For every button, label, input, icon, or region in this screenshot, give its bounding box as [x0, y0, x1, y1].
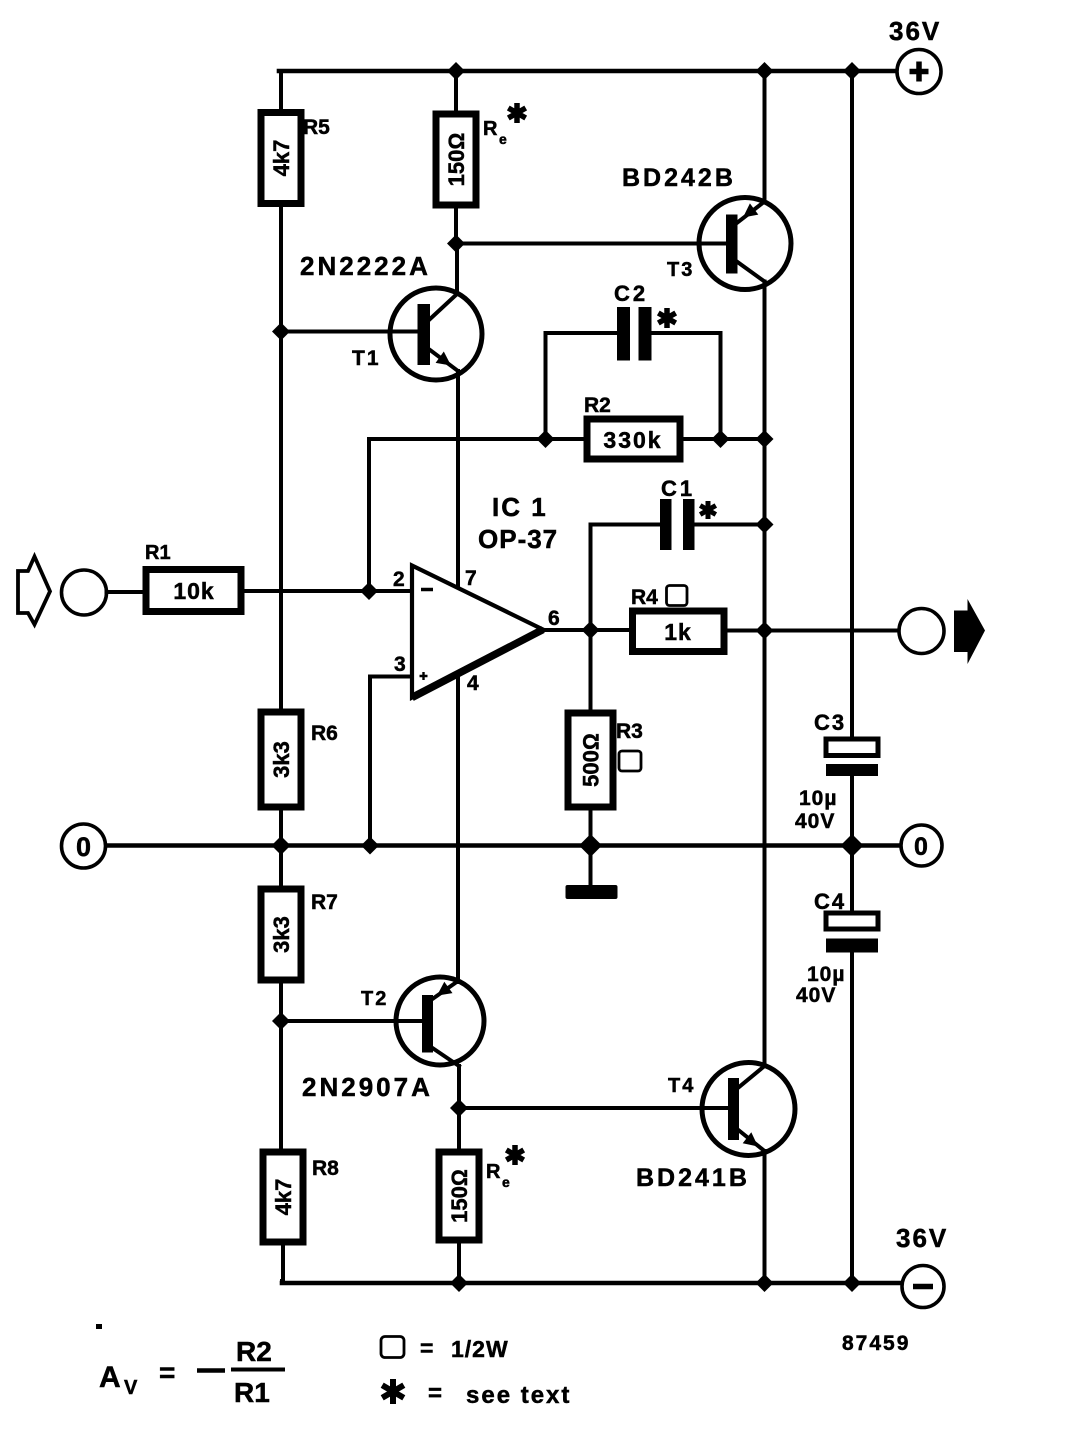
- pin 4 label: [467, 672, 479, 695]
- junction pin6 node: [582, 621, 600, 639]
- transistor T3 BD242B: [622, 164, 791, 290]
- svg-text:BD242B: BD242B: [622, 164, 736, 192]
- wire T1 emitter to pin7: [456, 371, 460, 588]
- resistor R4: [631, 586, 724, 652]
- asterisk C2: [658, 308, 675, 328]
- capacitor C4: [796, 889, 878, 1007]
- wire C2 left leg: [546, 333, 618, 439]
- svg-text:87459: 87459: [842, 1332, 910, 1355]
- junction pin3 ground: [361, 837, 379, 855]
- output arrow: [954, 599, 985, 664]
- terminal -36V: [902, 1266, 944, 1308]
- wire R8 to -36V rail: [282, 1242, 283, 1283]
- svg-text:1k: 1k: [664, 619, 692, 645]
- wire R3 to 0 rail: [589, 807, 593, 846]
- svg-text:10k: 10k: [173, 578, 214, 604]
- svg-text:10µ: 10µ: [807, 963, 845, 986]
- svg-text:C1: C1: [661, 476, 695, 501]
- junction pin2 node: [360, 582, 378, 600]
- wire feedback vertical: [367, 439, 371, 591]
- svg-text:R6: R6: [311, 722, 338, 745]
- svg-text:3: 3: [394, 653, 406, 676]
- wire R4 to output terminal: [724, 629, 899, 633]
- resistor R3 500ohm: [568, 713, 643, 807]
- wire pin6 to R4: [543, 628, 633, 632]
- svg-text:150Ω: 150Ω: [444, 133, 469, 187]
- svg-text:6: 6: [548, 607, 560, 630]
- asterisk RB bottom: [506, 1145, 523, 1165]
- svg-text:R1: R1: [145, 542, 171, 564]
- svg-text:4k7: 4k7: [271, 1179, 296, 1216]
- junction R4 output node: [756, 622, 774, 640]
- svg-text:4: 4: [467, 672, 479, 695]
- transistor T1 2N2222A: [300, 251, 482, 380]
- input arrow: [18, 557, 50, 625]
- wire 150ohm to T1 collector node: [454, 205, 458, 244]
- wire C2 right leg: [652, 333, 721, 439]
- svg-text:3k3: 3k3: [269, 916, 294, 953]
- legend asterisk: [382, 1379, 571, 1409]
- svg-text:1/2W: 1/2W: [451, 1336, 509, 1362]
- wire T1 collector: [430, 244, 457, 320]
- svg-text:40V: 40V: [796, 984, 836, 1007]
- wire ground stub: [589, 846, 593, 886]
- wire R1 to op-amp pin2: [241, 589, 412, 593]
- svg-text:R3: R3: [616, 720, 643, 743]
- asterisk C1: [700, 501, 716, 519]
- junction T3 rail: [756, 62, 774, 80]
- svg-text:IC 1: IC 1: [492, 492, 548, 522]
- junction T1 collector / T3 base: [447, 235, 465, 253]
- wire C1 left leg: [591, 525, 661, 631]
- formula Av = -R2/R1: [99, 1336, 285, 1408]
- svg-text:e: e: [499, 131, 507, 147]
- wire +36V top rail: [279, 69, 897, 74]
- svg-text:see text: see text: [466, 1382, 571, 1409]
- svg-text:2N2222A: 2N2222A: [300, 251, 431, 281]
- wire pin4 to T2 emitter: [456, 673, 460, 982]
- resistor R2: [584, 394, 680, 459]
- wire C1 right leg: [695, 523, 765, 527]
- svg-text:=: =: [428, 1380, 442, 1407]
- svg-text:2N2907A: 2N2907A: [302, 1072, 433, 1102]
- junction T1 base node: [272, 323, 290, 341]
- svg-text:36V: 36V: [889, 16, 941, 46]
- wire R2 right to output line: [680, 437, 765, 441]
- pin 2 label: [393, 568, 405, 591]
- svg-text:=: =: [159, 1357, 175, 1388]
- svg-text:3k3: 3k3: [269, 741, 294, 778]
- wire R5 top: [279, 71, 283, 113]
- junction T4 rail: [756, 1274, 774, 1292]
- pin 3 label: [394, 653, 406, 676]
- wire C3 to 0 rail: [850, 776, 854, 846]
- wire input to R1: [107, 590, 147, 594]
- svg-text:R8: R8: [312, 1157, 339, 1180]
- svg-text:A: A: [99, 1361, 121, 1394]
- wire T3 collector output line: [763, 282, 767, 1065]
- svg-text:0: 0: [914, 833, 928, 861]
- wire C4 to -36V rail: [850, 953, 854, 1283]
- wire R3 top: [589, 630, 593, 713]
- pin 7 label: [465, 567, 477, 590]
- junction C2 right: [712, 430, 730, 448]
- svg-text:R: R: [483, 118, 498, 140]
- asterisk RB top: [508, 103, 525, 123]
- wire 150ohm top drop: [454, 71, 458, 114]
- svg-text:T1: T1: [352, 347, 381, 370]
- terminal output: [899, 609, 944, 654]
- wire T3 emitter to rail: [763, 71, 767, 202]
- op-amp IC1 OP-37: [412, 492, 558, 698]
- svg-text:7: 7: [465, 567, 477, 590]
- half-watt square R4: [667, 586, 688, 606]
- capacitor C2: [614, 281, 652, 361]
- svg-text:T3: T3: [667, 259, 694, 281]
- svg-text:T2: T2: [361, 988, 388, 1010]
- wire R5 to R6 column: [279, 204, 283, 713]
- svg-text:V: V: [124, 1377, 138, 1399]
- wire C4 top: [850, 846, 854, 914]
- svg-text:C2: C2: [614, 281, 648, 306]
- junction T2 base node: [272, 1012, 290, 1030]
- svg-text:e: e: [502, 1174, 510, 1190]
- resistor RB top 150ohm: [436, 114, 507, 205]
- junction T2 collector / T4 base: [450, 1099, 468, 1117]
- svg-text:2: 2: [393, 568, 405, 591]
- junction C1 output line: [756, 516, 774, 534]
- svg-text:R2: R2: [236, 1336, 272, 1367]
- wire feedback row to R2: [369, 437, 587, 441]
- svg-text:OP-37: OP-37: [478, 524, 558, 554]
- node 36V+ label: [889, 16, 941, 46]
- resistor R6: [261, 712, 338, 807]
- wire 150ohm bottom to rail: [457, 1240, 461, 1283]
- pin 6 label: [548, 607, 560, 630]
- svg-text:=: =: [420, 1335, 433, 1361]
- wire T1 base: [281, 330, 418, 334]
- svg-text:4k7: 4k7: [269, 140, 294, 177]
- svg-text:C4: C4: [814, 889, 846, 914]
- capacitor C3: [795, 710, 878, 833]
- resistor R5: [261, 113, 330, 204]
- wire T2 base: [281, 1019, 422, 1023]
- wire C3 rail top: [850, 71, 854, 739]
- wire T3 base: [456, 242, 726, 246]
- wire T4 emitter to -36V rail: [763, 1151, 767, 1283]
- svg-text:0: 0: [76, 832, 91, 862]
- resistor R7: [261, 889, 338, 980]
- junction C2 left: [537, 430, 555, 448]
- half-watt square R3: [619, 751, 641, 771]
- node 36V- label: [896, 1223, 948, 1253]
- svg-text:330k: 330k: [603, 427, 662, 453]
- capacitor C1: [660, 476, 695, 550]
- junction R3 ground node: [579, 834, 602, 857]
- junction C4 rail: [843, 1274, 861, 1292]
- transistor T2 2N2907A: [302, 977, 484, 1102]
- resistor RB bottom 150ohm: [439, 1152, 510, 1240]
- svg-text:10µ: 10µ: [799, 787, 837, 810]
- svg-text:150Ω: 150Ω: [447, 1169, 472, 1223]
- junction C3 rail top: [843, 62, 861, 80]
- resistor R1: [145, 542, 241, 612]
- speck: [96, 1324, 102, 1329]
- svg-text:R4: R4: [631, 586, 658, 609]
- svg-text:500Ω: 500Ω: [579, 733, 604, 787]
- svg-text:R7: R7: [311, 891, 338, 914]
- wire bottom -36V rail: [282, 1281, 902, 1286]
- wire pin3 to 0 rail: [370, 677, 412, 846]
- svg-text:C3: C3: [814, 710, 846, 735]
- transistor T4 BD241B: [636, 1063, 795, 1193]
- junction 150ohm top rail: [447, 62, 465, 80]
- catalogue number 87459: [842, 1332, 910, 1355]
- junction 150ohm bottom rail: [450, 1274, 468, 1292]
- junction R6-R7 on 0 rail: [272, 836, 291, 855]
- svg-text:R5: R5: [303, 116, 330, 139]
- svg-text:BD241B: BD241B: [636, 1164, 750, 1192]
- terminal 0 right: [901, 825, 942, 866]
- resistor R8: [263, 1152, 339, 1242]
- svg-text:R2: R2: [584, 394, 611, 417]
- wire R7 to R8 column: [279, 980, 283, 1152]
- wire T4 base: [459, 1106, 728, 1110]
- wire T2 collector: [457, 1066, 461, 1152]
- terminal 0 left: [62, 824, 106, 868]
- ground: [566, 885, 618, 899]
- wire 0V rail: [106, 843, 901, 848]
- legend half-watt square: [381, 1335, 509, 1362]
- svg-text:40V: 40V: [795, 810, 835, 833]
- terminal input: [62, 570, 107, 615]
- junction C3 0 rail: [841, 834, 864, 857]
- svg-text:R: R: [486, 1161, 501, 1183]
- terminal +36V: [897, 50, 941, 94]
- svg-text:R1: R1: [234, 1377, 270, 1408]
- wire R6 to 0 rail: [279, 807, 283, 889]
- junction feedback-output: [756, 430, 774, 448]
- svg-text:36V: 36V: [896, 1223, 948, 1253]
- svg-text:T4: T4: [668, 1075, 695, 1097]
